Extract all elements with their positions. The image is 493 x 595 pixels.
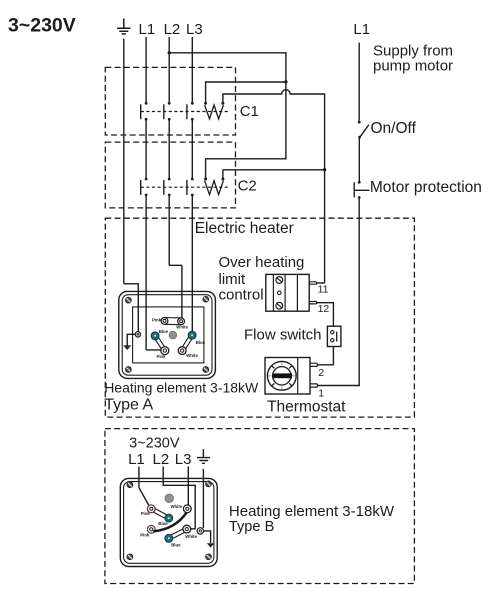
screw (element B bottom-left) [127, 554, 133, 560]
terminal A right Blue [188, 331, 196, 339]
screw (element B top-left) [127, 482, 133, 488]
wire motor protection to thermostat terminal 1 [317, 198, 359, 386]
svg-text:L3: L3 [175, 451, 192, 468]
label Flow switch [244, 327, 322, 344]
contactor C2 contact pole 2 [164, 178, 171, 197]
svg-text:Type A: Type A [104, 397, 153, 414]
wire L1 into element B [139, 467, 149, 507]
wire L1 supply drop [358, 43, 360, 121]
screw (element A bottom-right) [203, 367, 209, 373]
terminal tab 12 [309, 302, 316, 304]
svg-text:Pink: Pink [140, 532, 150, 537]
contactor C1 contact pole 2 [164, 102, 171, 121]
label Blue (B bottom) [171, 543, 181, 548]
label White (B lower) [185, 534, 197, 539]
heating element Type B body [120, 478, 217, 566]
screw (element B bottom-right) [206, 554, 212, 560]
contact motor protection [354, 181, 369, 199]
label pin 11 [318, 283, 329, 295]
svg-text:Pink: Pink [157, 354, 167, 359]
svg-text:White: White [176, 324, 188, 329]
svg-text:L1: L1 [139, 21, 156, 38]
wire flow switch to thermostat terminal 2 [317, 347, 333, 365]
label White (A top) [176, 324, 188, 329]
ground (inside element A) [124, 334, 136, 350]
wire C1 coil left lead to L2 feed [206, 82, 286, 103]
label L2 (top) [164, 21, 181, 38]
wire terminal 12 to flow switch [317, 303, 334, 327]
ground (earth symbol, Type B) [197, 449, 210, 463]
label Motor protection [370, 179, 482, 196]
svg-text:2: 2 [318, 367, 324, 379]
svg-text:White: White [171, 504, 183, 509]
label Pink (B upper) [141, 511, 151, 516]
svg-text:Blue: Blue [158, 521, 168, 526]
terminal A top-right White [178, 318, 185, 325]
contactor C1 enclosure (dashed box) [105, 67, 235, 135]
coil C2 [204, 178, 224, 195]
svg-text:limit: limit [219, 271, 246, 288]
svg-text:L2: L2 [164, 21, 181, 38]
flow switch body [327, 326, 341, 346]
svg-text:White: White [186, 353, 198, 358]
center stud (element B) [165, 494, 174, 503]
svg-text:L1: L1 [128, 451, 145, 468]
label pin 12 [318, 303, 330, 315]
terminal B upper-right White [183, 505, 191, 513]
label Heating element 3-18kW / Type B [229, 503, 395, 535]
wire terminal 11 to coils-common vertical [317, 282, 325, 284]
wire L2 tap to contactor coils [168, 51, 286, 179]
svg-text:L3: L3 [186, 21, 203, 38]
svg-text:control: control [219, 287, 264, 304]
svg-text:Heating element 3-18kW: Heating element 3-18kW [104, 379, 259, 395]
wire earth into element B [202, 469, 204, 528]
svg-text:Type B: Type B [229, 519, 274, 535]
contactor C2 enclosure (dashed box) [105, 142, 235, 208]
label Over heating limit control [219, 254, 305, 304]
wire ground into element A [124, 284, 139, 332]
label L3 (Type B) [175, 451, 192, 468]
svg-text:L1: L1 [353, 21, 370, 38]
svg-text:Blue: Blue [171, 543, 181, 548]
svg-text:Blue: Blue [159, 329, 169, 334]
label L3 (top) [186, 21, 203, 38]
svg-text:C2: C2 [238, 178, 257, 195]
contactor C2 contact pole 3 [187, 178, 194, 197]
terminal B upper-left Pink [147, 505, 155, 513]
label Blue (A right) [196, 340, 206, 345]
screw (element A top-left) [125, 297, 131, 303]
label 3~230V (Type B box) [129, 436, 180, 452]
wire L2 into element B [163, 467, 195, 529]
terminal tab 1 [310, 384, 317, 387]
contactor C1 contact pole 3 [187, 102, 194, 121]
svg-text:Thermostat: Thermostat [267, 399, 346, 416]
contactor C2 contact pole 1 [141, 178, 148, 197]
terminal B middle Blue [165, 514, 173, 522]
screw (element B top-right) [206, 481, 212, 487]
terminal B lower-right White [183, 525, 191, 533]
C1 mechanical linkage (dashed) [141, 111, 229, 113]
svg-text:Blue: Blue [196, 340, 206, 345]
label Pink (A bottom) [157, 354, 167, 359]
node junction coil C1 feed [284, 80, 287, 83]
svg-text:White: White [185, 534, 197, 539]
link bar Blue-White (element B) [168, 527, 188, 540]
terminal A bottom-left Pink [161, 347, 169, 355]
label 3~230V (top left) [8, 15, 76, 37]
svg-text:Pink: Pink [152, 318, 162, 323]
label Blue (B middle) [158, 521, 168, 526]
center stud (element A) [169, 331, 177, 339]
link bar Pink-Blue (element B) [150, 507, 169, 520]
terminal B earth stud [197, 528, 203, 534]
link bar left diagonal (element A) [154, 335, 167, 352]
thermostat body [265, 358, 310, 395]
svg-text:Flow switch: Flow switch [244, 327, 322, 344]
svg-text:On/Off: On/Off [371, 120, 417, 137]
link bar top pair (element A) [165, 318, 182, 325]
switch On/Off [358, 121, 369, 139]
svg-text:pump motor: pump motor [373, 58, 453, 75]
wire ground line (vertical, down to heater) [123, 39, 125, 284]
C2 mechanical linkage (dashed) [141, 186, 229, 188]
wire L3 phase line [191, 37, 193, 331]
terminal A top-left Pink [161, 318, 168, 325]
label L1 (Type B) [128, 451, 145, 468]
heating element Type B enclosure (dashed box) [105, 429, 415, 584]
wire C1 coil right lead to control chain (with hop) [223, 90, 325, 283]
label On/Off [371, 120, 417, 137]
label C1 [240, 103, 259, 120]
svg-text:L2: L2 [153, 451, 170, 468]
label L1 (top) [139, 21, 156, 38]
link bar right diagonal (element A) [181, 334, 194, 351]
svg-text:Over heating: Over heating [219, 254, 305, 271]
svg-text:11: 11 [318, 283, 329, 295]
svg-text:3~230V: 3~230V [8, 15, 76, 37]
label Pink (A top) [152, 318, 162, 323]
wire L1 phase line [146, 37, 161, 350]
terminal A ground stud [135, 332, 140, 337]
terminal B lower-left Pink [147, 525, 155, 533]
label Heating element 3-18kW / Type A [104, 379, 259, 413]
svg-text:Pink: Pink [141, 511, 151, 516]
screw (element A top-right) [203, 296, 209, 302]
terminal A bottom-right White [178, 347, 186, 355]
svg-text:C1: C1 [240, 103, 259, 120]
coil C1 [204, 102, 224, 119]
svg-text:Heating element 3-18kW: Heating element 3-18kW [229, 503, 395, 520]
electric heater enclosure (dashed box) [105, 218, 414, 417]
label Pink (B lower) [140, 532, 150, 537]
label Electric heater [195, 220, 294, 237]
contactor C1 contact pole 1 [141, 102, 148, 121]
label L1 (supply, right) [353, 21, 370, 38]
ground (inside element B) [204, 531, 215, 548]
node junction coils common [323, 168, 326, 171]
terminal B bottom Blue [165, 534, 173, 542]
label C2 [238, 178, 257, 195]
wire L2 phase line [169, 37, 182, 318]
heating element Type A body [119, 291, 216, 378]
label Supply from pump motor [373, 42, 453, 74]
wire between On/Off and motor protection [358, 137, 360, 182]
screw (element A bottom-left) [125, 367, 131, 373]
terminal tab 11 [309, 282, 316, 284]
over heating limit control body [266, 274, 309, 311]
ground (mains earth symbol, top) [117, 19, 130, 34]
label White (B upper) [171, 504, 183, 509]
label Thermostat [267, 399, 346, 416]
wire C2 coil right lead to coils common node [223, 170, 325, 179]
heating element arc (element B) [153, 512, 187, 531]
label L2 (Type B) [153, 451, 170, 468]
wire L3 into element B [187, 467, 189, 506]
svg-text:12: 12 [318, 303, 330, 315]
svg-text:1: 1 [318, 387, 324, 399]
terminal tab 2 [310, 363, 317, 366]
svg-text:Motor protection: Motor protection [370, 179, 482, 196]
label White (A bottom) [186, 353, 198, 358]
label pin 1 [318, 387, 324, 399]
label pin 2 [318, 367, 324, 379]
terminal A left Blue [151, 332, 159, 340]
svg-text:3~230V: 3~230V [129, 436, 180, 452]
svg-text:Electric heater: Electric heater [195, 220, 294, 237]
label Blue (A left) [159, 329, 169, 334]
